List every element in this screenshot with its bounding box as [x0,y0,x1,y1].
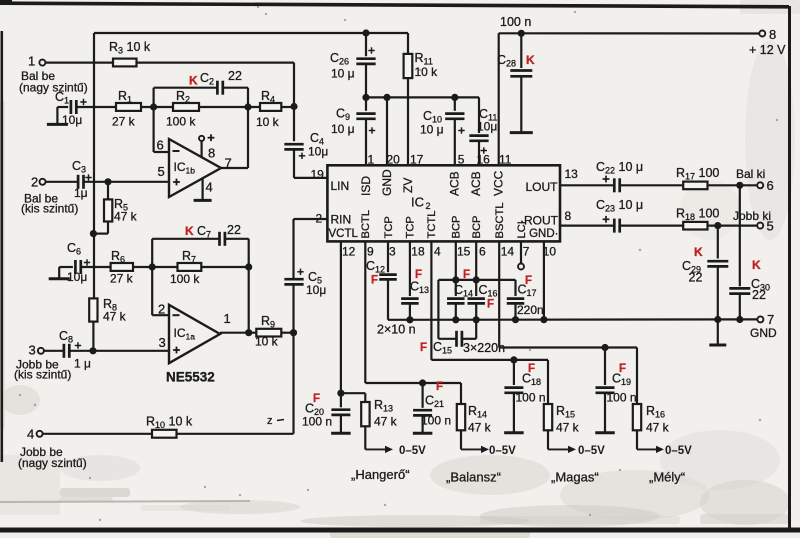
capacitor C21 100n [413,381,451,433]
capacitor C13 10n [401,269,429,320]
resistor R5 47k [90,182,138,237]
svg-text:47 k: 47 k [556,421,580,435]
capacitor C16 220n [467,283,497,320]
wire R3 to summing node with corner down to C4 node [137,63,295,107]
svg-text:BCTL: BCTL [360,210,372,239]
stray pen mark z [267,415,284,427]
svg-text:5: 5 [767,219,774,234]
wire pin15 BCP down [452,241,459,296]
capacitor C20 100n [302,393,351,433]
label Balansz [446,470,501,485]
svg-text:10 k: 10 k [415,65,439,79]
svg-text:14: 14 [501,245,515,259]
op-amp IC1b output pin7 wire [221,107,248,171]
svg-text:ZV: ZV [401,178,415,193]
op-amp IC1a pin3 label [159,335,166,350]
svg-text:ISD: ISD [359,176,373,196]
op-amp IC1a triangle [169,305,220,363]
svg-text:22: 22 [228,69,242,83]
op-amp IC1b pin5 label [158,164,165,179]
svg-text:2: 2 [31,175,38,190]
IC2 pin name ZV [401,178,415,193]
svg-text:NE5532: NE5532 [166,370,215,385]
svg-text:100 n: 100 n [516,391,546,405]
IC2 top pin numbers [368,153,512,167]
wire R9 to summing node [281,329,297,336]
svg-text:2: 2 [316,212,323,226]
capacitor C12 10n [366,259,397,320]
svg-text:ACB: ACB [469,171,483,196]
label Mely [649,470,685,485]
svg-text:0–5V: 0–5V [578,445,605,457]
resistor R2 100k [166,89,199,129]
svg-text:z: z [267,415,273,427]
svg-text:5: 5 [458,153,465,167]
IC2 pin name BSCTL [494,202,506,238]
capacitor C5 10u [284,219,326,333]
svg-text:7: 7 [767,312,774,327]
wire C23 to R18 [620,225,684,227]
svg-text:9: 9 [367,245,374,259]
terminal 6 Bal ki [736,167,774,193]
IC2 label GND bottom right [529,228,558,240]
svg-text:BSCTL: BSCTL [494,202,506,238]
svg-text:1: 1 [368,153,375,167]
wire feedback node down to output [245,267,252,336]
IC2 pin name LCI [516,221,528,238]
wire bias vertical line [92,33,95,351]
wire R17 to terminal 6 [708,182,758,189]
svg-text:100 n: 100 n [500,15,531,29]
arrow 0-5V Mely [637,445,692,457]
wire R16 to arrow [636,430,638,449]
svg-text:27 k: 27 k [112,115,136,129]
wire C22 to R17 [620,184,684,186]
svg-text:TCP: TCP [405,216,417,238]
svg-text:220n: 220n [517,303,544,317]
wire C5 to RIN pin2 [294,218,328,220]
wire input1 to R3 [45,61,113,63]
svg-text:TCP: TCP [383,216,395,238]
resistor R10 10k [146,415,193,438]
svg-text:6: 6 [479,245,486,259]
node R8 bottom junction [89,347,96,354]
wire R15 to arrow [547,430,549,449]
resistor R4 10k [256,89,281,129]
IC2 pin name BCTL [360,210,372,239]
svg-text:+ 12 V: + 12 V [749,43,786,57]
ground stub of C6 [49,267,73,279]
svg-text:1 μ: 1 μ [74,357,91,371]
svg-text:8: 8 [208,146,215,161]
wire R13 to arrow [364,426,366,449]
svg-text:VCC: VCC [492,170,506,196]
ground stub of C1 [47,107,68,124]
IC2 bottom pin numbers [342,245,556,259]
svg-text:22: 22 [227,223,241,237]
svg-text:IC: IC [411,195,424,210]
resistor R7 100k [170,249,201,286]
wire C1 to R1 [76,106,116,108]
wire ground bus [388,316,757,324]
IC U2 body [327,165,560,241]
wire pin20 GND stub [386,97,388,165]
IC2 pin name TCTL [426,211,438,239]
capacitor C3 1u [46,159,92,200]
capacitor C4 10u [284,107,328,178]
svg-text:R18 100: R18 100 [676,207,719,223]
wire R2 to R4 node [199,103,260,110]
op-amp IC1b pin6 wire [154,107,169,153]
svg-text:R10 10 k: R10 10 k [146,415,193,431]
svg-text:100 n: 100 n [607,391,637,405]
svg-text:10μ: 10μ [308,145,328,159]
svg-text:4: 4 [434,245,441,259]
svg-text:47 k: 47 k [114,210,138,224]
wire decoupling rail [362,94,479,101]
IC2 label LOUT [525,180,558,194]
IC2 pin name ACB pin5 [448,171,462,196]
capacitor C6 10u [67,241,90,284]
svg-text:LOUT: LOUT [525,180,558,194]
resistor R18 100 [676,207,719,230]
input terminal 1 Bal be (nagy szintu) [19,54,88,95]
svg-text:TCTL: TCTL [426,211,438,239]
wire R18 to terminal 5 [708,222,758,229]
resistor R15 47k [544,360,580,435]
label 100n top [500,15,531,29]
svg-text:LIN: LIN [331,179,350,193]
capacitor C7 22 feedback loop [152,223,249,267]
label Hangero [351,467,410,482]
wire pin18 TCP down [409,241,411,296]
wire ROUT pin8 to C23 [560,225,614,227]
svg-text:10 μ: 10 μ [331,122,355,136]
IC2 label RIN [331,213,352,227]
capacitor C15 220n loop [420,280,505,356]
capacitor C30 22 [729,185,770,319]
wire LOUT pin13 to C22 [560,184,614,186]
IC2 label VCTL [329,228,359,240]
svg-text:BCP: BCP [471,215,483,238]
arrow 0-5V Hangero [365,445,426,457]
capacitor C23 10u [596,198,643,233]
IC2 pin name ISD [359,176,373,196]
svg-text:0–5V: 0–5V [489,445,516,457]
svg-text:7: 7 [225,156,232,171]
svg-text:ACB: ACB [448,171,462,196]
resistor R17 100 [676,166,719,189]
svg-text:F: F [487,299,494,311]
wire C8 to op-amp pin3 [69,350,169,352]
arrow 0-5V Magas [548,445,605,457]
wire pin6 BCP down [473,241,480,296]
svg-text:17: 17 [410,153,424,167]
capacitor C11 10u [469,97,497,165]
IC2 label ROUT [520,214,559,228]
resistor R14 47k [457,383,492,435]
resistor R3 10k [109,40,151,66]
IC2 pin number 8 [565,209,572,223]
svg-text:C22 10 μ: C22 10 μ [596,160,643,176]
svg-text:10 k: 10 k [255,335,279,349]
svg-text:11: 11 [499,153,512,167]
IC2 pin number 19 [311,168,325,182]
svg-text:F: F [420,342,427,354]
svg-text:„Hangerő“: „Hangerő“ [351,467,410,482]
wire pin12 node to R13 [341,393,365,402]
capacitor C22 10u [596,160,643,192]
resistor R1 27k [112,89,141,129]
svg-text:1: 1 [224,311,231,326]
svg-text:47 k: 47 k [374,415,398,429]
label 2x10n [377,323,416,337]
op-amp IC1b pin4 ground [194,178,213,200]
IC2 pin number 2 [316,212,323,226]
svg-text:10μ: 10μ [306,283,326,297]
svg-text:10μ: 10μ [67,270,87,284]
svg-text:10 k: 10 k [256,115,280,129]
svg-text:F: F [371,275,378,287]
svg-text:3: 3 [389,245,396,259]
svg-text:K: K [694,245,703,259]
+12V rail wire [499,30,760,166]
capacitor C26 10u [330,29,376,97]
svg-text:10 μ: 10 μ [331,67,355,81]
svg-text:8: 8 [769,27,776,42]
IC2 pin name BCP pin15 [451,215,463,238]
wire R1 to R2 node [141,103,173,110]
svg-text:(kis szintű): (kis szintű) [21,202,78,216]
svg-text:47 k: 47 k [103,310,127,324]
IC2 pin name BCP pin6 [471,215,483,238]
label Magas [551,470,599,485]
svg-text:K: K [526,53,535,67]
wire input4 to R10 [43,433,152,435]
svg-text:2×10 n: 2×10 n [377,323,416,337]
svg-text:GND: GND [750,326,777,340]
svg-text:GND·: GND· [529,228,558,240]
capacitor C9 10u [331,97,376,165]
svg-text:7: 7 [523,245,530,259]
svg-text:C23 10 μ: C23 10 μ [596,198,643,214]
capacitor C8 1u [44,329,91,371]
svg-text:3: 3 [159,335,166,350]
IC2 label LIN [331,179,350,193]
terminal 7 GND [750,312,777,340]
svg-text:22: 22 [752,288,766,302]
wire C3 to op-amp pin5 [84,181,170,183]
resistor R11 10k [404,33,439,165]
label NE5532 [166,370,215,385]
svg-text:K: K [752,258,761,272]
svg-text:6: 6 [767,178,774,193]
svg-text:3: 3 [29,343,36,358]
svg-text:47 k: 47 k [468,421,492,435]
svg-text:6: 6 [157,138,164,153]
svg-text:100 n: 100 n [421,414,451,428]
arrow 0-5V Balansz [461,445,516,457]
resistor R13 47k [361,398,397,429]
svg-text:„Mély“: „Mély“ [649,470,685,485]
IC2 pin name VCC [492,170,506,196]
svg-text:„Magas“: „Magas“ [551,470,599,485]
svg-text:BCP: BCP [451,215,463,238]
wire pin14 BSCTL down and right to Mely [499,241,637,351]
svg-text:R3 10 k: R3 10 k [109,40,151,56]
wire R7 to feedback node [201,263,252,270]
wire pin4 TCTL down and right to Magas [431,241,548,363]
capacitor C14 220n [447,269,473,320]
capacitor C2 22 feedback loop [154,69,248,107]
svg-text:2: 2 [426,201,431,211]
capacitor C19 100n [595,348,636,433]
wire pin9 BCTL down and right [365,241,461,386]
svg-text:1μ: 1μ [74,186,88,200]
resistor R16 47k [633,348,670,435]
svg-text:RIN: RIN [331,213,352,227]
svg-text:2: 2 [158,302,165,317]
capacitor C18 100n [504,360,545,433]
svg-text:100 k: 100 k [170,272,200,286]
svg-text:22: 22 [689,271,703,285]
capacitor C28 100n [497,33,535,132]
input terminal 2 Bal be (kis szintu) [21,175,78,216]
svg-text:0–5V: 0–5V [665,445,692,457]
svg-text:47 k: 47 k [646,421,670,435]
op-amp IC1b triangle [169,139,221,197]
svg-text:8: 8 [565,209,572,223]
capacitor C10 10u [420,97,465,165]
wire pin7 LCI stub [518,241,524,269]
wire R4 to C4 node [281,103,297,110]
wire R14 to arrow [460,430,462,449]
capacitor C1 10u [55,90,87,127]
svg-text:16: 16 [477,153,491,167]
svg-text:12: 12 [342,245,356,259]
input terminal 4 Jobb be (nagy szintu) [18,427,87,471]
svg-text:13: 13 [565,167,579,181]
svg-text:K: K [185,224,194,238]
IC2 pin name TCP pin18 [405,216,417,238]
wire R6 to R7 node [133,263,178,270]
svg-text:VCTL: VCTL [329,228,359,240]
svg-text:(nagy szintű): (nagy szintű) [18,456,87,470]
svg-text:5: 5 [158,164,165,179]
resistor R8 47k [89,297,126,324]
op-amp IC1a output pin1 wire [220,311,256,334]
resistor R6 27k [110,249,134,286]
svg-text:F: F [313,393,320,405]
svg-text:LCI: LCI [516,221,528,238]
svg-text:10μ: 10μ [62,113,82,127]
wire top-left rail [94,32,408,34]
svg-text:15: 15 [457,245,471,259]
capacitor C29 22 [682,226,728,320]
svg-text:F: F [436,381,443,393]
svg-text:4: 4 [27,427,34,442]
svg-text:K: K [189,74,198,88]
IC2 pin number 13 [565,167,579,181]
wire C6 to R6 [81,266,111,268]
svg-text:19: 19 [311,168,325,182]
svg-text:20: 20 [387,153,401,167]
svg-text:100 k: 100 k [166,115,196,129]
svg-text:100 n: 100 n [302,415,332,429]
terminal 5 Jobb ki [733,209,774,234]
svg-text:„Balansz“: „Balansz“ [446,470,501,485]
svg-text:4: 4 [206,180,213,195]
svg-text:(nagy szintű): (nagy szintű) [19,81,88,95]
svg-text:10 μ: 10 μ [420,123,444,137]
svg-text:GND: GND [380,169,394,196]
IC2 pin name TCP pin3 [383,216,395,238]
svg-text:27 k: 27 k [110,272,134,286]
wire pin12 VCTL down [337,241,344,396]
node R5 top junction [104,178,111,185]
terminal 8 +12V [749,27,786,57]
svg-text:(kis szintű): (kis szintű) [14,368,71,382]
IC2 pin name ACB pin16 [469,171,483,196]
capacitor C17 220n [456,275,544,320]
resistor R9 10k [255,314,281,349]
wire C4 to LIN pin19 [294,177,327,179]
wire R10 to summing node corner [177,333,294,434]
wire pin3 TCP down [387,241,389,272]
svg-text:10μ: 10μ [477,120,497,134]
op-amp IC1a pin2 wire [152,267,169,317]
svg-text:1: 1 [28,54,35,69]
op-amp IC1b pin8 supply [199,134,215,160]
ground stub below C29 [709,320,726,346]
svg-text:Bal ki: Bal ki [736,167,765,181]
svg-text:0–5V: 0–5V [399,445,426,457]
input terminal 3 Jobb be (kis szintu) [14,343,71,382]
IC2 pin name GND top [380,169,394,196]
wire pin10 GND down [543,241,545,319]
svg-text:18: 18 [411,245,425,259]
svg-text:R17 100: R17 100 [676,166,719,182]
